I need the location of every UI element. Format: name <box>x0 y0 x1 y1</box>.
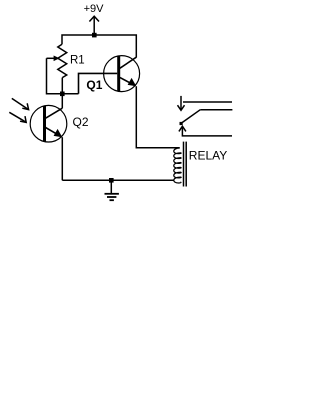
svg-text:Q1: Q1 <box>86 78 102 92</box>
transistor Q1 emitter with arrow <box>120 77 137 86</box>
pivot dot <box>180 122 183 125</box>
wire top rail <box>62 35 136 58</box>
relay coil L1 <box>174 148 181 183</box>
photo arrow 2 (light into Q2) <box>9 112 26 122</box>
wire Q2 collector up to node <box>61 94 63 108</box>
svg-text:Q2: Q2 <box>73 115 89 129</box>
photo arrow 1 (light into Q2) <box>12 98 29 109</box>
relay core line 1 <box>183 142 185 187</box>
transistor Q1 circle <box>104 56 140 92</box>
relay contact common arrow (up) <box>179 126 232 136</box>
relay core line 2 <box>185 142 187 187</box>
junction dot (top rail / +9V) <box>92 33 97 38</box>
transistor Q1 collector <box>120 57 137 68</box>
wire R1 bottom lead <box>61 78 63 94</box>
relay contact NO line <box>200 109 232 111</box>
relay contact NC line <box>183 101 232 103</box>
wire node to Q1 base (step) <box>79 73 118 93</box>
power arrow +9V <box>89 16 99 35</box>
svg-text:+9V: +9V <box>84 3 105 15</box>
wiper arrow of R1 <box>47 56 60 62</box>
wire wiper to node (left vertical) <box>47 58 79 94</box>
transistor Q2 circle <box>30 105 67 142</box>
relay contact NC arrow (down) <box>178 96 185 110</box>
wire bottom rail <box>62 179 174 181</box>
resistor R1 <box>58 44 67 77</box>
transistor Q1 base bar <box>117 56 120 91</box>
junction dot (node A) <box>60 92 65 97</box>
wire Q1 emitter down to coil <box>136 86 179 148</box>
junction dot (ground node) <box>109 178 114 183</box>
svg-text:R1: R1 <box>70 54 85 66</box>
ground <box>105 180 119 200</box>
transistor Q2 collector <box>46 108 63 118</box>
transistor Q2 emitter with arrow <box>46 128 63 138</box>
wire Q2 emitter down <box>61 137 63 180</box>
transistor Q2 base bar <box>43 106 46 142</box>
relay armature <box>181 110 200 124</box>
svg-text:RELAY: RELAY <box>189 149 227 163</box>
